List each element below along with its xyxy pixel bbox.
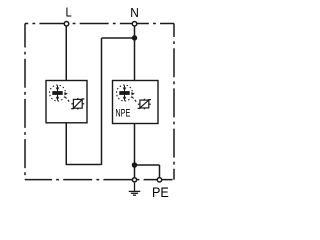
svg-text:L: L [66, 5, 72, 20]
svg-text:PE: PE [152, 185, 169, 200]
svg-text:N: N [130, 5, 139, 20]
svg-text:NPE: NPE [115, 108, 130, 120]
